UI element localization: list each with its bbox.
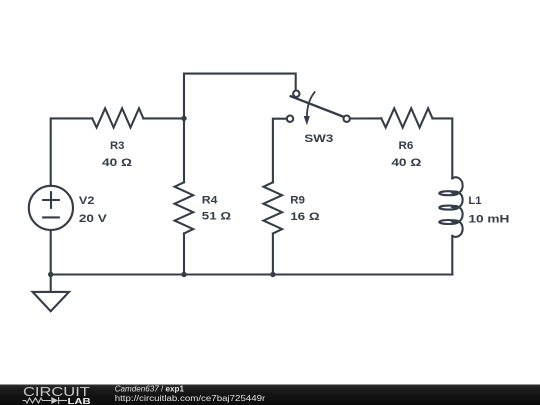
svg-text:R4: R4 (202, 193, 218, 206)
wire: R9 to bottom rail (272, 234, 274, 275)
resistor R6 (381, 108, 432, 127)
svg-text:R6: R6 (398, 140, 413, 152)
wire: junction up and top rail to switch (184, 74, 296, 119)
resistor R3 (92, 108, 143, 127)
svg-text:20 V: 20 V (79, 212, 108, 225)
wire: left rail from R3 down to V2 top (51, 118, 92, 185)
wire: switch left pole to R9 (273, 119, 287, 183)
footer bar (0, 385, 540, 405)
svg-text:16 Ω: 16 Ω (290, 210, 319, 223)
node junction: ground node (48, 272, 53, 277)
svg-text:10 mH: 10 mH (468, 212, 509, 225)
svg-text:LAB: LAB (68, 397, 91, 405)
svg-text:51 Ω: 51 Ω (202, 210, 231, 223)
wire: V2 bottom to bottom rail (50, 230, 52, 275)
CircuitLab logo (23, 386, 91, 405)
node junction: R9 bottom (270, 272, 275, 277)
svg-text:V2: V2 (79, 194, 95, 207)
svg-text:40 Ω: 40 Ω (102, 156, 132, 169)
wire: L1 bottom to bottom rail (451, 236, 453, 275)
svg-text:L1: L1 (468, 195, 481, 207)
wire: R3 to node junction (143, 117, 184, 119)
wire: switch right pole to R6 (350, 117, 381, 119)
resistor R9 (264, 182, 283, 233)
wire: R4 to bottom rail (183, 234, 185, 275)
svg-text:R9: R9 (290, 194, 305, 206)
wire: bottom rail (51, 273, 453, 275)
resistor R4 (175, 182, 194, 233)
node junction: R4 bottom (181, 272, 186, 277)
wire: R6 to L1 top (433, 118, 453, 178)
switch SW3 (287, 91, 350, 126)
node junction at R3/R4 (181, 116, 186, 121)
ground (33, 275, 69, 312)
voltage source V2 (29, 186, 73, 230)
svg-text:Camden637 / exp1: Camden637 / exp1 (115, 384, 185, 393)
inductor L1 (439, 177, 462, 237)
svg-text:http://circuitlab.com/ce7baj72: http://circuitlab.com/ce7baj725449r (115, 394, 266, 403)
wire: junction down to R4 (183, 118, 185, 182)
svg-text:40 Ω: 40 Ω (391, 156, 421, 169)
svg-text:SW3: SW3 (304, 132, 333, 145)
svg-text:R3: R3 (110, 140, 124, 152)
